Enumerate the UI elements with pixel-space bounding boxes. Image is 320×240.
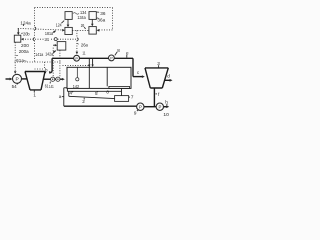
svg-text:1: 1 <box>33 93 36 98</box>
svg-text:26: 26 <box>81 23 85 28</box>
svg-text:142a: 142a <box>45 52 53 57</box>
svg-text:141a: 141a <box>35 52 43 57</box>
svg-text:P: P <box>139 104 142 109</box>
svg-text:7: 7 <box>131 95 134 100</box>
svg-text:142: 142 <box>73 84 80 89</box>
svg-text:200a: 200a <box>19 49 29 54</box>
svg-text:P: P <box>158 104 161 109</box>
svg-text:36a: 36a <box>97 18 105 23</box>
svg-text:P: P <box>15 77 18 83</box>
svg-text:P: P <box>75 56 78 61</box>
svg-text:124a: 124a <box>20 20 31 25</box>
svg-text:6: 6 <box>106 90 109 95</box>
svg-text:e: e <box>126 50 129 55</box>
svg-text:2: 2 <box>82 99 85 104</box>
svg-text:P: P <box>110 56 113 61</box>
svg-text:h: h <box>165 99 168 104</box>
svg-text:36: 36 <box>100 11 106 16</box>
svg-text:a: a <box>59 94 62 99</box>
svg-text:141: 141 <box>49 84 54 89</box>
svg-text:4: 4 <box>70 91 73 96</box>
svg-text:5: 5 <box>95 91 98 96</box>
svg-text:26a: 26a <box>81 43 88 48</box>
svg-text:9: 9 <box>134 111 137 116</box>
svg-text:b: b <box>45 67 48 72</box>
svg-text:3: 3 <box>157 61 160 66</box>
svg-text:8: 8 <box>117 48 120 53</box>
svg-text:11: 11 <box>82 50 85 55</box>
svg-text:20b: 20b <box>23 32 30 37</box>
svg-text:d: d <box>167 74 170 79</box>
svg-text:134a: 134a <box>77 15 86 20</box>
svg-text:181: 181 <box>44 37 49 42</box>
svg-text:10: 10 <box>163 112 169 117</box>
svg-text:200: 200 <box>21 43 29 48</box>
svg-text:54: 54 <box>12 84 17 89</box>
svg-text:61a: 61a <box>16 58 24 63</box>
svg-text:181a: 181a <box>45 31 54 36</box>
svg-text:124: 124 <box>56 22 62 27</box>
